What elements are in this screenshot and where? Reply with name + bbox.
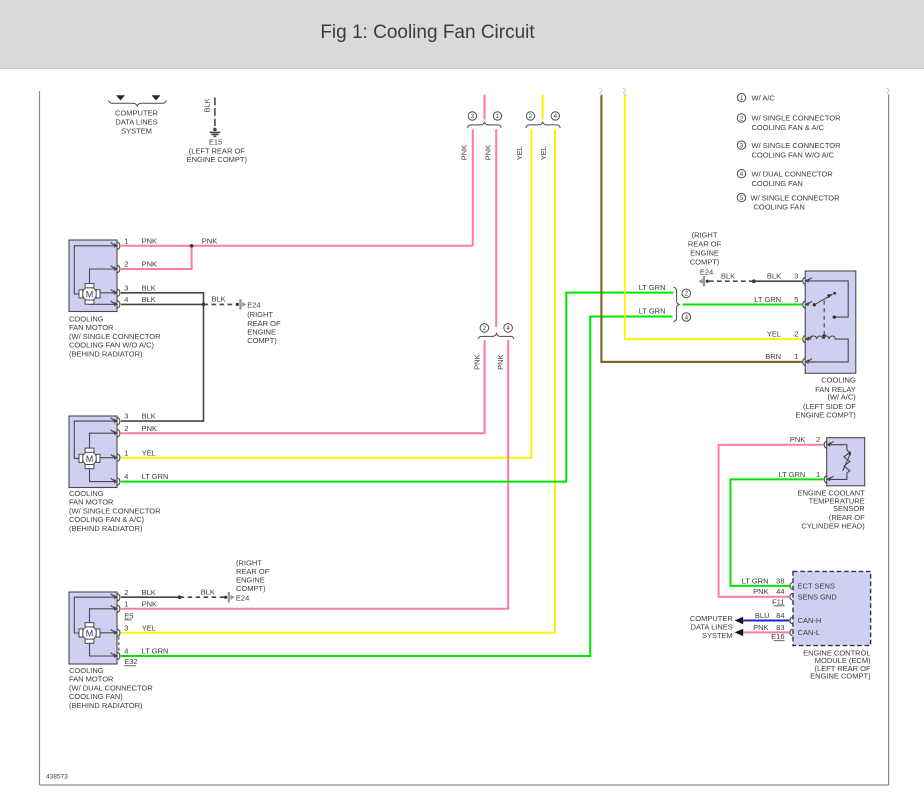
svg-text:BLK: BLK [201, 587, 215, 596]
svg-text:CAN-L: CAN-L [798, 628, 821, 637]
relay pin numbers [794, 271, 798, 361]
wire BLK motor M1 pin3 [121, 293, 204, 305]
option circle 2 (yellow) [526, 112, 534, 120]
option circle 4 (yellow) [551, 112, 559, 120]
svg-text:1: 1 [794, 352, 798, 361]
junction BLK at relay [752, 279, 756, 283]
svg-text:3: 3 [124, 283, 128, 292]
legend note 5 [737, 193, 840, 211]
wire PNK sensor pin 2 to ECM pin 44 [719, 445, 824, 597]
wire BLK dashed to E24 [204, 303, 236, 305]
svg-text:2: 2 [124, 424, 128, 433]
svg-text:2: 2 [685, 291, 689, 298]
wire PNK option 3 vertical to motor M1 pin1 [472, 129, 474, 246]
ground E15 [187, 128, 248, 165]
title band [0, 0, 924, 69]
svg-text:3: 3 [471, 113, 475, 120]
svg-text:1: 1 [124, 600, 128, 609]
svg-text:E16: E16 [771, 632, 784, 641]
svg-text:BLK: BLK [212, 294, 226, 303]
svg-text:BLK: BLK [142, 295, 156, 304]
wire YEL option 4 vertical to motor M3 pin3 [121, 129, 555, 633]
option circle 2 (pink mid) [480, 324, 489, 333]
ECM wire labels [742, 576, 785, 632]
wire LT GRN sensor pin 1 to ECM pin 38 [731, 479, 824, 586]
svg-text:SYSTEM: SYSTEM [121, 127, 152, 136]
connector E16 label [771, 632, 784, 641]
motor M1 pin 4 connector [111, 301, 120, 308]
motor M2 caption [69, 489, 161, 533]
svg-text:LT GRN: LT GRN [639, 307, 666, 316]
wire BLK dashed to E24 (motor M3) [180, 596, 224, 598]
svg-text:PNK: PNK [460, 145, 469, 160]
svg-text:M: M [86, 628, 94, 638]
svg-text:COOLING FAN & A/C: COOLING FAN & A/C [752, 123, 825, 132]
cooling fan relay box [805, 271, 856, 373]
svg-text:ENGINE COMPT): ENGINE COMPT) [810, 672, 871, 681]
svg-text:CYLINDER HEAD): CYLINDER HEAD) [801, 521, 865, 530]
yellow option brace (2|4) [526, 122, 560, 128]
svg-text:4: 4 [506, 325, 510, 332]
engine control module (ECM) box [793, 571, 871, 645]
motor M3 symbol [79, 623, 100, 644]
relay switch blade [813, 292, 836, 307]
connector E24 at motor M3 [224, 592, 249, 602]
svg-text:FAN MOTOR: FAN MOTOR [69, 498, 114, 507]
svg-text:3: 3 [794, 271, 798, 280]
arrow CAN-L [735, 629, 744, 636]
svg-text:(W/ A/C): (W/ A/C) [827, 393, 856, 402]
svg-text:PNK: PNK [496, 354, 505, 369]
svg-text:84: 84 [776, 611, 784, 620]
motor M2 pin 1 connector [111, 454, 120, 461]
svg-text:W/ SINGLE CONNECTOR: W/ SINGLE CONNECTOR [752, 141, 842, 150]
svg-text:COOLING FAN: COOLING FAN [752, 179, 803, 188]
svg-text:E15: E15 [209, 137, 222, 146]
connector F11 label [772, 597, 784, 606]
svg-text:COOLING: COOLING [821, 375, 856, 384]
svg-text:3: 3 [740, 142, 744, 149]
svg-text:PNK: PNK [142, 600, 157, 609]
svg-text:COOLING FAN W/O A/C: COOLING FAN W/O A/C [752, 150, 835, 159]
svg-text:M: M [86, 289, 94, 299]
ECM caption [803, 649, 871, 681]
wire BRN relay pin 1 [601, 95, 802, 362]
relay pin 1 connector [803, 358, 812, 365]
junction on PNK wire [190, 244, 194, 248]
svg-text:4: 4 [740, 171, 744, 178]
wire PNK motor M1 pin1 [121, 245, 473, 247]
svg-text:COMPT): COMPT) [690, 257, 720, 266]
svg-text:PNK: PNK [202, 236, 217, 245]
svg-text:ENGINE COMPT): ENGINE COMPT) [795, 410, 856, 419]
svg-text:ENGINE COMPT): ENGINE COMPT) [187, 155, 248, 164]
motor M1 pin labels [124, 236, 157, 304]
wire PNK option 2 vertical to motor M2 pin2 [121, 340, 485, 433]
svg-text:BLK: BLK [142, 283, 156, 292]
relay coil [808, 336, 848, 362]
svg-text:2: 2 [124, 588, 128, 597]
svg-text:4: 4 [124, 472, 128, 481]
svg-text:(BEHIND RADIATOR): (BEHIND RADIATOR) [69, 701, 143, 710]
svg-text:LT GRN: LT GRN [778, 470, 805, 479]
wire YEL feed from top [542, 95, 544, 120]
svg-text:PNK: PNK [142, 260, 157, 269]
page continuation squiggle (brown wire) [599, 88, 603, 95]
motor M3 pin 1 connector [111, 605, 120, 612]
svg-text:W/ SINGLE CONNECTOR: W/ SINGLE CONNECTOR [752, 114, 842, 123]
motor M2 pin 2 connector [111, 430, 120, 437]
motor M3 pin 3 connector [111, 629, 120, 636]
wire BLK motor M3 pin2 [121, 596, 180, 598]
svg-text:PNK: PNK [142, 424, 157, 433]
page continuation squiggle (yellow wire) [623, 88, 627, 95]
computer data lines system symbol (top left) [109, 95, 167, 135]
sensor pin 2 connector [824, 441, 833, 448]
svg-text:BLK: BLK [767, 271, 781, 280]
svg-text:(LEFT REAR OF: (LEFT REAR OF [189, 146, 246, 155]
connector E5 label [124, 611, 133, 620]
option circle 2 (green) [682, 289, 691, 298]
sensor pin labels [778, 435, 820, 479]
relay pin 3 connector [803, 277, 812, 284]
junction BLK [202, 303, 206, 307]
motor M1 pin 1 connector [111, 242, 120, 249]
svg-text:E24: E24 [247, 300, 260, 309]
svg-text:(BEHIND RADIATOR): (BEHIND RADIATOR) [69, 350, 143, 359]
svg-text:COMPT): COMPT) [236, 584, 266, 593]
svg-text:YEL: YEL [539, 146, 548, 160]
svg-text:1: 1 [740, 95, 744, 102]
svg-text:83: 83 [776, 623, 784, 632]
svg-text:F11: F11 [772, 597, 784, 606]
dashed link between motor M3 connectors [118, 637, 120, 652]
cooling fan motor M3 box [69, 592, 117, 664]
wire PNK option 4 vertical to motor M3 pin1 [121, 340, 508, 609]
motor M1 caption [69, 314, 161, 358]
svg-text:COOLING: COOLING [69, 666, 104, 675]
wire BLK motor M1 pin4 [121, 303, 204, 305]
connector E24 (right rear of engine compt) [236, 299, 281, 345]
legend note 4 [737, 169, 833, 187]
svg-text:BRN: BRN [765, 352, 781, 361]
svg-text:LT GRN: LT GRN [742, 576, 769, 585]
wire PNK motor M1 pin2 [121, 246, 192, 269]
caption (right rear of engine compt) for relay E24 [688, 230, 722, 276]
svg-text:COOLING FAN & A/C): COOLING FAN & A/C) [69, 515, 145, 524]
svg-text:COOLING FAN W/O A/C): COOLING FAN W/O A/C) [69, 341, 155, 350]
svg-text:PNK: PNK [473, 354, 482, 369]
svg-text:1: 1 [124, 448, 128, 457]
svg-text:CAN-H: CAN-H [798, 616, 822, 625]
svg-text:2: 2 [124, 260, 128, 269]
svg-text:COOLING: COOLING [69, 314, 104, 323]
svg-text:FAN MOTOR: FAN MOTOR [69, 323, 114, 332]
relay caption [795, 375, 856, 419]
relay actuator dashed link [822, 301, 827, 340]
cooling fan motor M1 box [69, 240, 117, 312]
svg-text:5: 5 [794, 295, 798, 304]
motor M1 pin 2 connector [111, 265, 120, 272]
wire BLK vertical down to motor M2 pin3 [121, 304, 204, 421]
svg-text:PNK: PNK [753, 623, 768, 632]
svg-text:W/ DUAL CONNECTOR: W/ DUAL CONNECTOR [752, 169, 834, 178]
svg-text:3: 3 [124, 624, 128, 633]
second pink option brace (2|4) [478, 333, 513, 338]
svg-text:YEL: YEL [767, 329, 781, 338]
wire YEL relay pin 2 [625, 95, 802, 339]
relay pin 2 connector [803, 335, 812, 342]
svg-text:2: 2 [740, 115, 744, 122]
svg-text:1: 1 [124, 236, 128, 245]
svg-text:438573: 438573 [46, 774, 68, 781]
svg-text:E24: E24 [700, 268, 713, 277]
connector E24 at relay [699, 276, 709, 286]
svg-text:(BEHIND RADIATOR): (BEHIND RADIATOR) [69, 524, 143, 533]
svg-text:E5: E5 [124, 611, 133, 620]
legend note 2 [737, 114, 841, 132]
svg-text:E32: E32 [124, 657, 137, 666]
svg-text:Fig 1: Cooling Fan Circuit: Fig 1: Cooling Fan Circuit [320, 22, 535, 43]
ECM pin 38 connector [790, 583, 793, 590]
motor M2 symbol [79, 448, 100, 469]
svg-text:DATA LINES: DATA LINES [115, 118, 157, 127]
option circle 3 [468, 112, 476, 120]
motor M2 pin 4 connector [111, 478, 120, 485]
svg-text:BLK: BLK [721, 271, 735, 280]
wire LT GRN motor M3 pin4 to green brace [121, 317, 673, 657]
diagram frame bottom border [40, 784, 889, 786]
svg-text:W/ A/C: W/ A/C [752, 93, 776, 102]
svg-text:COOLING: COOLING [69, 489, 104, 498]
motor M3 caption [69, 666, 153, 710]
legend note 1 [737, 93, 775, 102]
svg-text:(W/ SINGLE CONNECTOR: (W/ SINGLE CONNECTOR [69, 506, 161, 515]
relay fixed contact [833, 315, 836, 318]
svg-text:BLK: BLK [203, 98, 212, 112]
sensor caption [798, 488, 866, 530]
svg-text:4: 4 [124, 295, 128, 304]
diagram frame left border [39, 91, 41, 785]
motor M2 pin labels [124, 412, 168, 482]
caption (right rear of engine compt) for M3 E24 [236, 559, 270, 594]
junction BLK motor M3 [178, 595, 182, 599]
svg-text:4: 4 [554, 113, 558, 120]
wire BLU CAN-H to computer data lines [743, 620, 789, 622]
svg-text:5: 5 [740, 195, 744, 202]
svg-text:LT GRN: LT GRN [142, 472, 169, 481]
connector E32 label [124, 657, 137, 666]
motor M3 pin 4 connector [111, 652, 120, 659]
svg-text:PNK: PNK [753, 587, 768, 596]
svg-text:38: 38 [776, 576, 784, 585]
svg-text:COOLING FAN): COOLING FAN) [69, 692, 123, 701]
motor M3 pin labels [124, 588, 168, 656]
svg-text:ECT SENS: ECT SENS [798, 582, 835, 591]
wire LT GRN to relay pin 5 [683, 304, 803, 306]
svg-text:LT GRN: LT GRN [142, 647, 169, 656]
wire PNK CAN-L to computer data lines [743, 631, 789, 633]
svg-text:COMPT): COMPT) [247, 336, 277, 345]
green merge brace [674, 287, 680, 321]
motor M1 pin 3 connector [111, 289, 120, 296]
svg-text:(W/ DUAL CONNECTOR: (W/ DUAL CONNECTOR [69, 683, 153, 692]
option circle 4 (green) [682, 313, 691, 322]
sensor internal thermistor [829, 445, 851, 480]
svg-text:BLK: BLK [142, 412, 156, 421]
svg-text:SYSTEM: SYSTEM [702, 631, 733, 640]
svg-text:YEL: YEL [515, 146, 524, 160]
svg-text:FAN MOTOR: FAN MOTOR [69, 675, 114, 684]
wire BLK dashed from E24 to junction [709, 280, 752, 282]
ECM pin name labels inside box [798, 582, 838, 638]
svg-text:E24: E24 [236, 593, 249, 602]
svg-text:PNK: PNK [790, 435, 805, 444]
svg-text:ENGINE: ENGINE [690, 248, 719, 257]
svg-text:YEL: YEL [142, 448, 156, 457]
svg-text:4: 4 [124, 647, 128, 656]
legend note 3 [737, 141, 841, 159]
svg-text:2: 2 [816, 435, 820, 444]
svg-text:SENS GND: SENS GND [798, 592, 838, 601]
svg-text:COOLING FAN: COOLING FAN [754, 203, 805, 212]
motor M1 internal wiring [74, 246, 117, 304]
ECT sensor box [827, 438, 865, 486]
page continuation squiggle (right border) [886, 88, 890, 95]
motor M2 pin 3 connector [111, 417, 120, 424]
svg-text:1: 1 [816, 470, 820, 479]
wire BLK to relay pin 3 [754, 280, 802, 282]
svg-text:BLU: BLU [755, 611, 770, 620]
svg-text:LT GRN: LT GRN [639, 283, 666, 292]
svg-text:1: 1 [496, 113, 500, 120]
motor M3 internal wiring [74, 597, 117, 656]
svg-text:3: 3 [124, 412, 128, 421]
wire BLK to ground E15 (dashed) [203, 98, 215, 127]
label computer data lines system (at ECM) [690, 614, 734, 640]
option circle 4 (pink mid) [504, 324, 513, 333]
svg-text:(W/ SINGLE CONNECTOR: (W/ SINGLE CONNECTOR [69, 332, 161, 341]
option circle 1 [493, 112, 501, 120]
ECM pin 44 connector [790, 593, 793, 600]
svg-text:M: M [86, 454, 94, 464]
svg-text:4: 4 [685, 314, 689, 321]
relay internal contact wiring [808, 281, 848, 317]
wire YEL option 2 vertical to motor M2 pin1 [121, 129, 531, 458]
cooling fan motor M2 box [69, 416, 117, 488]
motor M3 pin 2 connector [111, 594, 120, 601]
sensor pin 1 connector [824, 476, 833, 483]
svg-text:PNK: PNK [484, 145, 493, 160]
wire LT GRN motor M2 pin4 to green brace [121, 293, 673, 482]
motor M1 symbol [79, 284, 100, 305]
svg-text:(RIGHT: (RIGHT [692, 230, 718, 239]
svg-text:PNK: PNK [142, 236, 157, 245]
arrow CAN-H [735, 617, 744, 624]
svg-text:2: 2 [483, 325, 487, 332]
svg-text:LT GRN: LT GRN [754, 295, 781, 304]
svg-text:44: 44 [776, 587, 784, 596]
svg-text:2: 2 [794, 329, 798, 338]
relay pin 5 connector [803, 301, 812, 308]
wire PNK feed from top [484, 95, 486, 120]
svg-text:REAR OF: REAR OF [688, 239, 722, 248]
pink option brace (3|1) [468, 122, 502, 128]
ECM pin 84 connector [790, 617, 793, 624]
svg-text:W/ SINGLE CONNECTOR: W/ SINGLE CONNECTOR [751, 193, 841, 202]
diagram frame right border [888, 95, 890, 785]
svg-text:2: 2 [529, 113, 533, 120]
motor M2 internal wiring [74, 421, 117, 482]
wire PNK option 1 vertical to second brace [495, 129, 497, 327]
svg-text:BLK: BLK [142, 588, 156, 597]
ECM pin 83 connector [790, 629, 793, 636]
svg-text:YEL: YEL [142, 624, 156, 633]
svg-text:COMPUTER: COMPUTER [115, 109, 159, 118]
